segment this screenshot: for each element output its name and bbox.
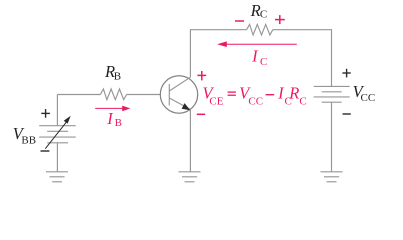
svg-text:CC: CC — [248, 96, 263, 108]
svg-text:CE: CE — [209, 96, 223, 108]
svg-text:C: C — [299, 96, 306, 108]
svg-text:CC: CC — [361, 92, 376, 104]
svg-text:B: B — [115, 117, 122, 129]
svg-text:I: I — [251, 47, 259, 66]
svg-text:BB: BB — [21, 134, 36, 146]
svg-text:B: B — [114, 70, 121, 82]
svg-text:R: R — [288, 84, 299, 103]
svg-text:C: C — [260, 9, 267, 21]
svg-text:I: I — [106, 109, 114, 128]
svg-text:C: C — [260, 56, 267, 68]
